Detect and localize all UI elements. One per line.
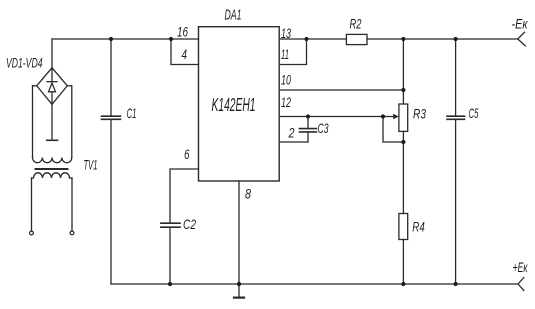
junction bottom rail / pin 8 ground bbox=[237, 282, 241, 286]
junction pin 12 / C3 bbox=[306, 114, 310, 118]
capacitor C3 upper stub bbox=[307, 117, 309, 129]
terminal circle right bbox=[70, 231, 74, 235]
svg-text:2: 2 bbox=[288, 125, 295, 141]
capacitor C5 upper lead bbox=[455, 39, 457, 116]
wire primary left leg bbox=[31, 178, 33, 231]
svg-text:-Eк: -Eк bbox=[512, 16, 529, 32]
wire R3 top feed bbox=[402, 39, 404, 104]
svg-text:C5: C5 bbox=[469, 105, 479, 121]
wire top rail left (bridge to pin 16) bbox=[52, 38, 199, 40]
wire pin 8 bbox=[238, 181, 240, 284]
bridge rectifier VD1-VD4 diamond bbox=[37, 68, 68, 105]
svg-text:12: 12 bbox=[281, 94, 291, 110]
capacitor C3 plates bbox=[300, 129, 317, 132]
wire primary right leg bbox=[71, 178, 73, 231]
ground stub bbox=[238, 284, 240, 297]
wire bridge bottom lead to tap bar bbox=[51, 104, 53, 140]
svg-text:R3: R3 bbox=[413, 106, 426, 122]
svg-text:TV1: TV1 bbox=[84, 157, 98, 173]
wire pin 12 to wiper arrow bbox=[279, 116, 394, 118]
capacitor C3 lower stub bbox=[307, 132, 309, 142]
junction top rail / C5 bbox=[454, 37, 458, 41]
svg-text:R4: R4 bbox=[412, 219, 425, 235]
wire 16/4 loop bbox=[171, 39, 199, 65]
junction bottom rail / R4 bbox=[401, 282, 405, 286]
junction pin 12 / wiper tie bbox=[381, 114, 385, 118]
wire top rail (R2 to -Ek terminal) bbox=[367, 38, 518, 40]
svg-text:C1: C1 bbox=[127, 105, 137, 121]
junction top rail / pin 11 loop bbox=[304, 37, 308, 41]
transformer TV1 secondary winding bbox=[33, 158, 72, 163]
svg-text:K142EH1: K142EH1 bbox=[212, 95, 256, 115]
diode symbol inside bridge bbox=[47, 68, 57, 105]
wire bottom rail bbox=[111, 283, 518, 285]
svg-text:C2: C2 bbox=[183, 216, 196, 232]
terminal +Ek chevron bbox=[518, 278, 524, 291]
wire wiper tie-down bbox=[383, 117, 403, 143]
wire pin 6 bbox=[170, 169, 199, 223]
capacitor C1 upper lead bbox=[110, 39, 112, 116]
wire pin 10 bbox=[279, 89, 403, 91]
junction top rail / R3 bbox=[401, 37, 405, 41]
wire pin 11/13 loop bbox=[279, 39, 306, 65]
wire bridge left AC lead bbox=[32, 86, 34, 158]
svg-text:6: 6 bbox=[184, 146, 190, 162]
capacitor C2 lower lead bbox=[169, 227, 171, 284]
wiper arrowhead bbox=[393, 114, 399, 119]
svg-text:R2: R2 bbox=[350, 15, 362, 31]
svg-text:11: 11 bbox=[281, 46, 289, 62]
wire bridge right AC lead bbox=[71, 86, 73, 158]
wire R4 bottom lead bbox=[402, 240, 404, 285]
transformer TV1 core bbox=[36, 168, 68, 170]
terminal circle left bbox=[30, 231, 34, 235]
wire top rail right (pin 13 to R2) bbox=[279, 38, 346, 40]
junction top rail / C1 bbox=[109, 37, 113, 41]
ground bar bbox=[234, 297, 244, 299]
wire bridge top lead bbox=[51, 39, 53, 68]
tap bar terminator bbox=[47, 139, 58, 141]
wire bridge left AC stub bbox=[33, 85, 37, 87]
wire bridge right AC stub bbox=[67, 85, 72, 87]
svg-text:DA1: DA1 bbox=[225, 7, 242, 24]
op-amp regulator DA1 body bbox=[199, 27, 280, 181]
wire pin 2 bbox=[279, 141, 308, 143]
svg-text:+Eк: +Eк bbox=[513, 259, 529, 275]
svg-text:10: 10 bbox=[281, 72, 291, 88]
capacitor C1 lower lead bbox=[110, 119, 112, 284]
svg-text:13: 13 bbox=[281, 25, 291, 41]
junction pin 10 / R3 bbox=[401, 88, 405, 92]
capacitor C5 lower lead bbox=[455, 119, 457, 284]
terminal -Ek chevron bbox=[518, 32, 526, 46]
capacitor C2 plates bbox=[161, 223, 180, 227]
resistor R4 body bbox=[399, 214, 408, 240]
svg-text:8: 8 bbox=[245, 186, 251, 202]
wire R3 to R4 bbox=[402, 131, 404, 213]
junction bottom rail / C2 bbox=[168, 282, 172, 286]
transformer TV1 primary winding bbox=[32, 173, 73, 178]
capacitor C5 plates bbox=[447, 116, 465, 119]
svg-text:16: 16 bbox=[177, 24, 188, 40]
resistor R3 body bbox=[399, 104, 408, 131]
junction top rail / pins 16-4 bbox=[169, 37, 173, 41]
svg-text:C3: C3 bbox=[318, 120, 329, 136]
svg-text:VD1-VD4: VD1-VD4 bbox=[6, 55, 43, 71]
resistor R2 body bbox=[346, 34, 367, 44]
svg-text:4: 4 bbox=[182, 46, 188, 62]
capacitor C1 plates bbox=[102, 116, 121, 119]
junction bottom rail / C5 bbox=[454, 282, 458, 286]
junction wiper tie / R3 bottom bbox=[401, 140, 405, 144]
